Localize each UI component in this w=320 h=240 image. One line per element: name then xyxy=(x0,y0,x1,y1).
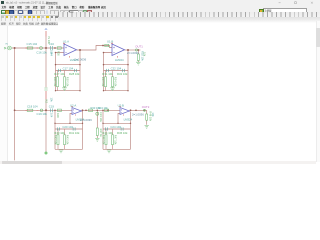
svg-text:编辑: 编辑 xyxy=(9,5,14,9)
svg-text:LM324: LM324 xyxy=(115,58,124,62)
svg-text:R26: R26 xyxy=(56,51,60,56)
svg-text:10k: 10k xyxy=(143,52,147,57)
svg-text:R45 10k: R45 10k xyxy=(117,131,128,135)
svg-text:仿真: 仿真 xyxy=(56,5,61,9)
svg-text:104: 104 xyxy=(49,52,53,57)
svg-text:C16 10k: C16 10k xyxy=(36,51,47,55)
svg-text:LM324: LM324 xyxy=(124,117,133,121)
svg-text:R27 10k: R27 10k xyxy=(54,72,65,76)
svg-text:2=1.0036: 2=1.0036 xyxy=(127,51,139,55)
svg-text:100: 100 xyxy=(69,11,74,14)
svg-text:仿真: 仿真 xyxy=(23,21,28,25)
svg-text:10k: 10k xyxy=(151,112,155,117)
svg-text:U1:A: U1:A xyxy=(63,40,69,44)
svg-text:R28 10k: R28 10k xyxy=(69,72,80,76)
svg-text:U2:B: U2:B xyxy=(118,103,124,107)
svg-text:C19: C19 xyxy=(49,105,55,109)
svg-text:R33 10k: R33 10k xyxy=(101,77,105,87)
svg-text:工具: 工具 xyxy=(48,5,53,9)
svg-text:IN2: IN2 xyxy=(45,99,49,104)
svg-text:C20 104: C20 104 xyxy=(62,125,73,129)
svg-text:元件: 元件 xyxy=(35,21,40,25)
svg-text:ab_lp1-v2 - schematic 21-07-12: ab_lp1-v2 - schematic 21-07-12 11_26 xyxy=(6,2,49,5)
svg-text:R43 10k: R43 10k xyxy=(65,135,69,145)
svg-text:C17 104: C17 104 xyxy=(63,66,74,70)
svg-text:放置: 放置 xyxy=(32,5,38,9)
svg-text:编辑窗口: 编辑窗口 xyxy=(49,21,59,25)
svg-text:R31 10k: R31 10k xyxy=(102,72,113,76)
svg-text:窗口: 窗口 xyxy=(72,5,77,9)
svg-text:工程: 工程 xyxy=(25,5,30,9)
svg-text:IN: IN xyxy=(6,43,9,45)
svg-text:帮助: 帮助 xyxy=(80,5,85,9)
svg-text:R34 10k: R34 10k xyxy=(98,106,108,110)
svg-text:OUT1: OUT1 xyxy=(135,45,143,49)
svg-text:C19 10k: C19 10k xyxy=(37,112,48,116)
svg-text:视图: 视图 xyxy=(16,5,22,9)
svg-text:U1:B: U1:B xyxy=(107,40,113,44)
svg-text:R29 10k: R29 10k xyxy=(53,77,57,87)
svg-text:R34 10k: R34 10k xyxy=(113,77,117,87)
svg-text:C18 104: C18 104 xyxy=(27,105,38,109)
svg-text:U2:A: U2:A xyxy=(70,103,76,107)
svg-text:文件: 文件 xyxy=(2,5,7,9)
svg-text:R36: R36 xyxy=(56,113,60,118)
svg-text:2=1.0036: 2=1.0036 xyxy=(74,57,86,61)
svg-text:10k: 10k xyxy=(50,98,54,103)
svg-text:设计: 设计 xyxy=(41,5,46,9)
svg-text:布线: 布线 xyxy=(29,21,34,25)
svg-text:R32 10k: R32 10k xyxy=(117,72,128,76)
svg-text:C22 104: C22 104 xyxy=(111,66,122,70)
svg-text:2=1.0036: 2=1.0036 xyxy=(80,118,92,122)
svg-text:原理: 原理 xyxy=(1,21,6,25)
svg-text:维修服务网: 维修服务网 xyxy=(88,5,101,9)
svg-text:C24 104: C24 104 xyxy=(110,125,121,129)
svg-text:R37 1k: R37 1k xyxy=(99,129,103,138)
svg-text:R47 10k: R47 10k xyxy=(113,135,117,145)
svg-text:注册版: 注册版 xyxy=(265,9,273,13)
svg-text:打开: 打开 xyxy=(9,21,14,25)
svg-text:R30 10k: R30 10k xyxy=(65,77,69,87)
svg-text:保存: 保存 xyxy=(16,21,21,25)
svg-text:IN 10k: IN 10k xyxy=(47,37,51,45)
svg-text:报告: 报告 xyxy=(64,5,69,9)
svg-text:2=1.0036: 2=1.0036 xyxy=(132,112,144,116)
svg-text:返回: 返回 xyxy=(100,5,106,9)
svg-text:104: 104 xyxy=(49,113,53,118)
svg-text:OUT2: OUT2 xyxy=(142,105,150,109)
svg-text:C15 104: C15 104 xyxy=(27,42,38,46)
svg-text:R41 10k: R41 10k xyxy=(69,131,80,135)
svg-text:C23 10u: C23 10u xyxy=(99,112,103,122)
